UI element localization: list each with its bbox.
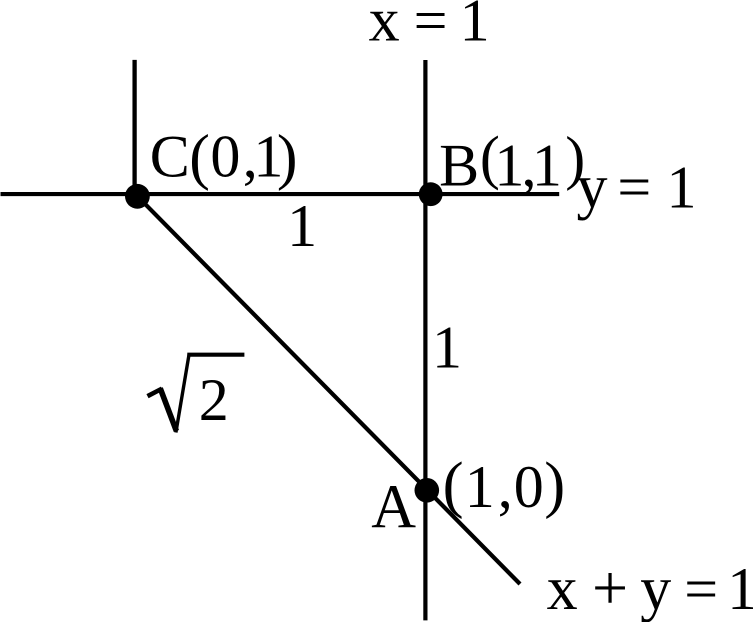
svg-text:): ) bbox=[544, 450, 565, 520]
wire: diagonal line x+y=1 bbox=[137, 196, 520, 584]
svg-text:1: 1 bbox=[460, 0, 490, 54]
wire: horizontal line y=1 bbox=[1, 192, 560, 196]
svg-text:1: 1 bbox=[532, 133, 562, 199]
svg-text:1: 1 bbox=[494, 133, 524, 199]
svg-text:1: 1 bbox=[287, 193, 317, 259]
svg-text:(: ( bbox=[443, 450, 464, 520]
svg-text:=: = bbox=[414, 0, 448, 54]
svg-text:C: C bbox=[150, 124, 190, 190]
svg-text:1: 1 bbox=[465, 454, 495, 520]
svg-text:y: y bbox=[640, 555, 671, 622]
svg-text:2: 2 bbox=[199, 367, 229, 433]
radical sign of sqrt(2): down-stroke bbox=[160, 388, 176, 431]
svg-text:=: = bbox=[684, 556, 718, 622]
wire: y-axis segment above C bbox=[132, 60, 136, 196]
radical sign of sqrt(2): vinculum bbox=[187, 353, 244, 357]
svg-text:x: x bbox=[369, 0, 400, 55]
svg-text:0: 0 bbox=[210, 124, 240, 190]
label x + y = 1 (bottom right) bbox=[547, 552, 753, 622]
svg-text:1: 1 bbox=[432, 315, 462, 381]
label y = 1 (right) bbox=[577, 153, 697, 221]
svg-text:+: + bbox=[592, 552, 628, 622]
svg-text:x: x bbox=[547, 555, 578, 622]
radical sign of sqrt(2): up-stroke bbox=[176, 354, 189, 433]
label B(1,1) bbox=[439, 124, 585, 198]
svg-text:1: 1 bbox=[727, 556, 753, 622]
svg-text:1: 1 bbox=[667, 155, 697, 221]
node A dot bbox=[415, 478, 440, 503]
radical sign of sqrt(2): tick bbox=[148, 389, 163, 397]
node C dot bbox=[125, 184, 150, 209]
label x = 1 (top) bbox=[369, 0, 490, 55]
svg-text:A: A bbox=[371, 474, 416, 542]
wire: vertical line x=1 bbox=[423, 60, 427, 620]
svg-text:,: , bbox=[498, 454, 513, 520]
label C(0,1) bbox=[150, 123, 298, 191]
svg-text:0: 0 bbox=[514, 454, 544, 520]
svg-text:=: = bbox=[617, 154, 651, 220]
node B dot bbox=[419, 182, 443, 206]
svg-text:(: ( bbox=[189, 123, 210, 191]
svg-text:y: y bbox=[577, 153, 608, 221]
svg-text:B: B bbox=[439, 133, 479, 199]
svg-text:): ) bbox=[277, 123, 298, 191]
label (1,0) bbox=[443, 450, 566, 521]
